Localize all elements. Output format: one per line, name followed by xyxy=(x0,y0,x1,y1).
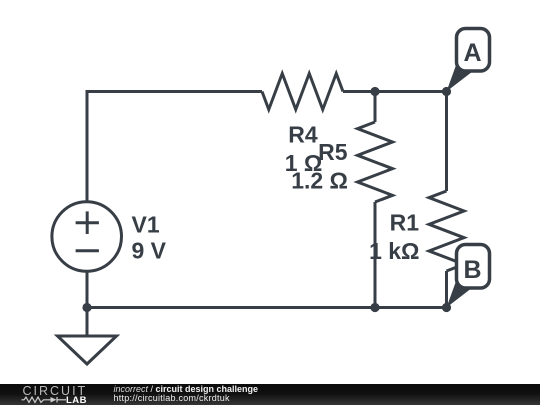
svg-text:R5: R5 xyxy=(318,139,348,165)
svg-text:LAB: LAB xyxy=(66,395,87,404)
svg-text:1 kΩ: 1 kΩ xyxy=(369,238,419,264)
svg-text:A: A xyxy=(463,39,481,67)
svg-text:R1: R1 xyxy=(390,209,420,235)
svg-text:R4: R4 xyxy=(288,122,318,148)
svg-text:9 V: 9 V xyxy=(132,238,167,264)
svg-text:V1: V1 xyxy=(132,212,160,238)
svg-text:B: B xyxy=(463,256,481,284)
svg-text:1.2 Ω: 1.2 Ω xyxy=(291,168,348,194)
